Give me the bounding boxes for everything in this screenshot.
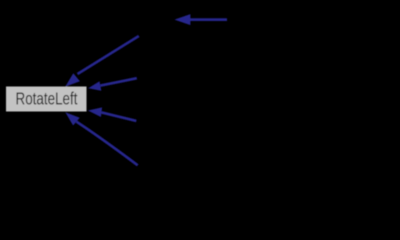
arrowhead	[65, 112, 79, 125]
arrowhead	[174, 14, 190, 25]
wire	[190, 18, 227, 21]
arrowhead	[65, 73, 80, 87]
edge 3: arrow into upper right corner of RotateLeft	[88, 78, 137, 91]
node RotateLeft	[6, 87, 87, 112]
edge 2: diagonal arrow into top of RotateLeft	[65, 36, 139, 87]
edge 1: top horizontal arrow (to hidden node)	[174, 14, 227, 25]
wire	[100, 78, 136, 85]
svg-text:RotateLeft: RotateLeft	[16, 89, 78, 109]
arrowhead	[88, 81, 101, 90]
wire	[78, 36, 139, 74]
wire	[76, 122, 137, 166]
arrowhead	[88, 107, 102, 117]
edge 4: arrow into lower right corner of RotateLeft	[88, 107, 136, 121]
wire	[102, 112, 137, 121]
edge 5: arrow into bottom of RotateLeft	[65, 112, 137, 165]
